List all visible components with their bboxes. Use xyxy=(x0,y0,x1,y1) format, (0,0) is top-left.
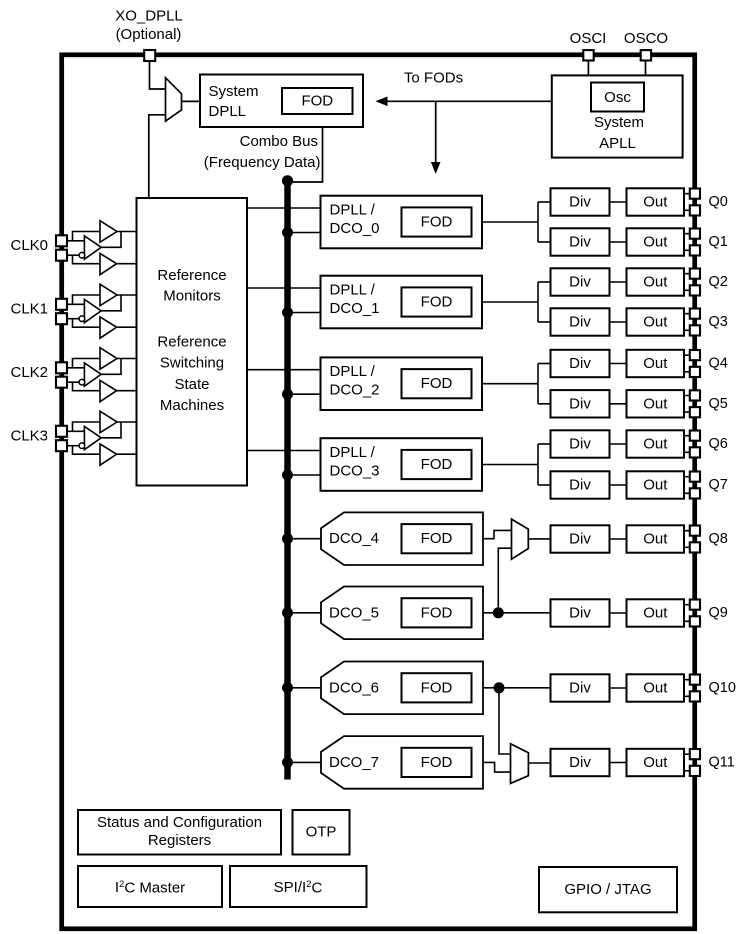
svg-text:Div: Div xyxy=(569,680,591,697)
wire CLK0 to bottom buffer xyxy=(73,255,101,264)
arrowhead To FODs down xyxy=(431,162,441,174)
svg-text:Q6: Q6 xyxy=(709,436,728,452)
block Out Q0 xyxy=(627,188,685,215)
svg-text:DPLL /: DPLL / xyxy=(330,202,376,219)
block OTP xyxy=(293,810,350,855)
pin CLK0 positive xyxy=(56,235,67,246)
svg-text:Out: Out xyxy=(643,314,668,331)
bubble CLK3 inverting input xyxy=(79,443,85,449)
bubble CLK0 inverting input xyxy=(79,252,85,258)
svg-text:DCO_6: DCO_6 xyxy=(329,679,379,696)
block Div Q9 xyxy=(551,599,610,626)
block FOD (DPLL/DCO_1) xyxy=(402,287,472,316)
block DPLL/DCO_3 xyxy=(321,438,483,491)
junction combo bus at DCO_7 xyxy=(282,757,293,768)
pin CLK2 positive xyxy=(56,362,67,373)
wire DPLL/DCO_0 output xyxy=(482,221,538,223)
wire combo bus to DPLL/DCO_2 xyxy=(289,393,321,395)
svg-text:DCO_5: DCO_5 xyxy=(329,604,379,621)
wire combo bus to DCO_5 xyxy=(290,612,321,614)
block Div Q0 xyxy=(551,188,610,215)
svg-text:FOD: FOD xyxy=(301,93,333,110)
wire To FODs branch down xyxy=(435,101,437,163)
wire DCO_4 to mux Q8 xyxy=(483,530,512,538)
svg-text:FOD: FOD xyxy=(421,456,453,473)
wire to Div Q6 xyxy=(538,443,551,445)
block Div Q5 xyxy=(551,390,610,417)
pin Q1 negative xyxy=(690,245,700,255)
block Out Q3 xyxy=(627,308,685,335)
pin CLK1 negative xyxy=(56,313,67,324)
svg-text:OSCI: OSCI xyxy=(570,30,607,47)
svg-text:Div: Div xyxy=(569,531,591,548)
wire reference to DPLL/DCO_1 xyxy=(247,287,321,289)
pin Q6 positive xyxy=(690,431,700,441)
svg-text:Machines: Machines xyxy=(160,397,224,414)
junction combo bus at DPLL/DCO_3 xyxy=(282,470,293,481)
wire DPLL/DCO_1 output split xyxy=(537,282,539,322)
pin Q5 negative xyxy=(690,407,700,417)
wire Div to Out Q11 xyxy=(610,762,627,764)
junction combo bus at DCO_4 xyxy=(282,533,293,544)
wire CLK3 to bottom buffer xyxy=(73,446,101,455)
buffer CLK2 bottom xyxy=(100,380,117,401)
wire Out Q8 to pins xyxy=(684,531,690,548)
pin CLK3 negative xyxy=(56,440,67,451)
wire Div to Out Q6 xyxy=(610,443,627,445)
wire Out Q4 to pins xyxy=(684,355,690,372)
svg-text:SPI/I2C: SPI/I2C xyxy=(274,879,323,897)
block Out Q4 xyxy=(627,350,685,377)
wire CLK0 negative input xyxy=(67,254,79,256)
buffer CLK0 bottom xyxy=(100,253,117,274)
pin Q11 negative xyxy=(690,766,700,776)
block FOD (DCO_7) xyxy=(402,748,472,777)
mux Q8 select xyxy=(512,519,529,559)
block System DPLL xyxy=(200,75,363,128)
svg-text:OSCO: OSCO xyxy=(624,30,668,47)
wire CLK1 bottom buffer output xyxy=(117,326,137,328)
svg-text:Switching: Switching xyxy=(160,355,224,372)
svg-text:Q4: Q4 xyxy=(709,356,728,372)
wire CLK0 top buffer output xyxy=(117,231,137,233)
wire Out Q7 to pins xyxy=(684,477,690,494)
wire CLK1 to top buffer xyxy=(73,295,101,304)
svg-text:Div: Div xyxy=(569,436,591,453)
svg-text:Out: Out xyxy=(643,355,668,372)
block DCO_4 xyxy=(321,512,483,565)
pin Q2 negative xyxy=(690,285,700,295)
wire Out Q6 to pins xyxy=(684,436,690,453)
pin XO_DPLL xyxy=(144,50,155,61)
pin Q7 negative xyxy=(690,488,700,498)
svg-text:Out: Out xyxy=(643,605,668,622)
wire CLK0 to top buffer xyxy=(73,232,101,241)
wire to Div Q7 xyxy=(538,484,551,486)
wire Out Q2 to pins xyxy=(684,274,690,291)
pin Q7 positive xyxy=(690,472,700,482)
wire mux Q11 to Div xyxy=(528,762,550,764)
svg-text:GPIO / JTAG: GPIO / JTAG xyxy=(564,881,651,898)
wire DCO_6 output xyxy=(483,687,551,689)
svg-text:(Frequency Data): (Frequency Data) xyxy=(204,154,321,171)
svg-text:Q7: Q7 xyxy=(709,477,728,493)
svg-text:APLL: APLL xyxy=(599,135,636,152)
wire combo bus to DPLL/DCO_3 xyxy=(289,474,321,476)
svg-text:Out: Out xyxy=(643,436,668,453)
svg-text:Div: Div xyxy=(569,754,591,771)
pin Q5 positive xyxy=(690,390,700,400)
pin CLK0 negative xyxy=(56,250,67,261)
wire Out Q3 to pins xyxy=(684,314,690,331)
svg-text:CLK0: CLK0 xyxy=(11,237,49,254)
svg-text:Registers: Registers xyxy=(148,832,211,849)
wire DCO_6 to mux Q11 xyxy=(499,688,511,754)
wire Out Q11 to pins xyxy=(684,754,690,771)
wire combo bus to DPLL/DCO_0 xyxy=(289,232,321,234)
svg-text:Q8: Q8 xyxy=(709,531,728,547)
block System APLL xyxy=(552,75,683,157)
wire CLK2 diff buffer output xyxy=(101,359,121,375)
wire CLK0 positive input xyxy=(67,240,84,242)
svg-text:Out: Out xyxy=(643,754,668,771)
block DCO_7 xyxy=(321,736,483,789)
svg-text:Div: Div xyxy=(569,314,591,331)
svg-text:Q0: Q0 xyxy=(709,194,728,210)
svg-text:Reference: Reference xyxy=(157,334,226,351)
svg-text:CLK2: CLK2 xyxy=(11,364,49,381)
svg-text:Div: Div xyxy=(569,355,591,372)
wire Div to Out Q1 xyxy=(610,241,627,243)
wire CLK2 to bottom buffer xyxy=(73,382,101,391)
svg-text:Out: Out xyxy=(643,680,668,697)
wire CLK1 diff buffer output xyxy=(101,295,121,311)
pin Q10 negative xyxy=(690,691,700,701)
wire mux to System DPLL xyxy=(182,100,201,102)
svg-text:DCO_4: DCO_4 xyxy=(329,530,379,547)
wire Out Q5 to pins xyxy=(684,396,690,413)
wire Div to Out Q5 xyxy=(610,403,627,405)
svg-text:DCO_1: DCO_1 xyxy=(330,300,380,317)
svg-text:Div: Div xyxy=(569,395,591,412)
block Out Q8 xyxy=(627,525,685,552)
wire XO_DPLL to mux xyxy=(150,61,166,89)
junction combo bus top xyxy=(282,175,293,186)
block Out Q5 xyxy=(627,390,685,417)
pin Q2 positive xyxy=(690,269,700,279)
mux system DPLL input select xyxy=(166,78,182,121)
svg-text:Monitors: Monitors xyxy=(163,288,221,305)
wire DPLL/DCO_3 output xyxy=(482,464,538,466)
pin Q6 negative xyxy=(690,447,700,457)
wire to Div Q2 xyxy=(538,281,551,283)
svg-text:FOD: FOD xyxy=(421,214,453,231)
svg-text:Div: Div xyxy=(569,234,591,251)
block Div Q1 xyxy=(551,228,610,255)
buffer CLK3 bottom xyxy=(100,444,117,465)
svg-text:System: System xyxy=(594,114,644,131)
pin OSCO xyxy=(641,50,651,60)
wire Out Q10 to pins xyxy=(684,680,690,697)
block Out Q2 xyxy=(627,268,685,295)
block Status and Configuration Registers xyxy=(78,810,281,855)
wire Div to Out Q2 xyxy=(610,281,627,283)
pin Q3 positive xyxy=(690,309,700,319)
svg-text:DPLL: DPLL xyxy=(209,103,247,120)
wire CLK3 bottom buffer output xyxy=(117,453,137,455)
wire System DPLL to combo bus xyxy=(289,127,323,182)
wire Div to Out Q3 xyxy=(610,321,627,323)
wire mux Q8 to Div xyxy=(528,538,550,540)
buffer CLK2 differential xyxy=(84,363,101,386)
arrowhead To FODs left xyxy=(375,97,387,107)
block DPLL/DCO_1 xyxy=(321,276,483,329)
svg-text:Out: Out xyxy=(643,477,668,494)
wire To FODs horizontal xyxy=(387,100,552,102)
svg-text:DPLL /: DPLL / xyxy=(330,282,376,299)
wire combo bus to DCO_7 xyxy=(290,761,321,763)
buffer CLK1 differential xyxy=(84,299,101,322)
wire DCO_5 output xyxy=(483,612,551,614)
wire CLK0 diff buffer output xyxy=(101,232,121,248)
buffer CLK3 top xyxy=(100,411,117,433)
wire to Div Q5 xyxy=(538,403,551,405)
wire CLK1 to bottom buffer xyxy=(73,319,101,328)
junction combo bus at DPLL/DCO_1 xyxy=(282,307,293,318)
svg-text:(Optional): (Optional) xyxy=(116,26,182,43)
svg-text:DPLL /: DPLL / xyxy=(330,444,376,461)
block Div Q6 xyxy=(551,430,610,457)
wire Div to Out Q0 xyxy=(610,201,627,203)
wire CLK2 negative input xyxy=(67,381,79,383)
pin Q4 negative xyxy=(690,367,700,377)
buffer CLK2 top xyxy=(100,348,117,370)
combo bus (thick vertical) xyxy=(284,179,291,780)
pin Q8 positive xyxy=(690,526,700,536)
svg-text:XO_DPLL: XO_DPLL xyxy=(115,8,183,25)
block DCO_5 xyxy=(321,587,483,640)
pin Q9 negative xyxy=(690,616,700,626)
block Div Q10 xyxy=(551,674,610,701)
wire to Div Q4 xyxy=(538,363,551,365)
block Reference Monitors / Switching xyxy=(137,198,248,486)
pin Q10 positive xyxy=(690,675,700,685)
wire reference to DPLL/DCO_3 xyxy=(247,450,321,452)
svg-text:Div: Div xyxy=(569,605,591,622)
wire reference to DPLL/DCO_0 xyxy=(247,207,321,209)
svg-text:Status and Configuration: Status and Configuration xyxy=(97,814,262,831)
svg-text:FOD: FOD xyxy=(421,375,453,392)
buffer CLK0 differential xyxy=(84,236,101,259)
wire CLK3 negative input xyxy=(67,445,79,447)
block Out Q6 xyxy=(627,430,685,457)
pin CLK3 positive xyxy=(56,426,67,437)
wire Div to Out Q10 xyxy=(610,687,627,689)
svg-text:Out: Out xyxy=(643,274,668,291)
svg-text:DCO_2: DCO_2 xyxy=(330,382,380,399)
buffer CLK0 top xyxy=(100,221,117,243)
block FOD (System DPLL) xyxy=(282,88,353,114)
wire combo bus to DCO_4 xyxy=(290,538,321,540)
block I2C Master xyxy=(78,866,222,907)
svg-text:DCO_7: DCO_7 xyxy=(329,754,379,771)
junction combo bus at DCO_5 xyxy=(282,607,293,618)
svg-text:FOD: FOD xyxy=(421,604,453,621)
wire DCO_7 to mux Q11 xyxy=(483,762,511,772)
wire CLK1 positive input xyxy=(67,303,84,305)
buffer CLK1 bottom xyxy=(100,317,117,338)
svg-text:FOD: FOD xyxy=(421,754,453,771)
junction combo bus at DPLL/DCO_0 xyxy=(282,227,293,238)
block Out Q10 xyxy=(627,674,685,701)
svg-text:CLK3: CLK3 xyxy=(11,428,49,445)
wire CLK0 bottom buffer output xyxy=(117,263,137,265)
block Div Q8 xyxy=(551,525,610,552)
wire CLK3 positive input xyxy=(67,430,84,432)
block FOD (DPLL/DCO_2) xyxy=(402,369,472,398)
block Div Q4 xyxy=(551,350,610,377)
svg-text:System: System xyxy=(209,83,259,100)
block FOD (DPLL/DCO_0) xyxy=(402,207,472,236)
svg-text:Out: Out xyxy=(643,234,668,251)
pin Q0 positive xyxy=(690,189,700,199)
block DPLL/DCO_2 xyxy=(321,357,483,410)
wire DPLL/DCO_2 output xyxy=(482,383,538,385)
pin Q9 positive xyxy=(690,600,700,610)
wire CLK2 bottom buffer output xyxy=(117,390,137,392)
wire OSCI to System APLL xyxy=(587,61,589,76)
block Div Q7 xyxy=(551,471,610,498)
junction DCO_5 output xyxy=(493,607,504,618)
wire to Div Q0 xyxy=(538,201,551,203)
svg-text:Q9: Q9 xyxy=(709,605,728,621)
wire CLK2 to top buffer xyxy=(73,359,101,368)
wire CLK1 negative input xyxy=(67,318,79,320)
block FOD (DPLL/DCO_3) xyxy=(402,450,472,479)
pin CLK1 positive xyxy=(56,299,67,310)
svg-text:Out: Out xyxy=(643,395,668,412)
svg-text:Reference: Reference xyxy=(157,267,226,284)
block Div Q3 xyxy=(551,308,610,335)
svg-text:Div: Div xyxy=(569,274,591,291)
svg-text:State: State xyxy=(174,376,209,393)
wire CLK3 diff buffer output xyxy=(101,422,121,438)
svg-text:Div: Div xyxy=(569,194,591,211)
wire CLK3 top buffer output xyxy=(117,421,137,423)
svg-text:CLK1: CLK1 xyxy=(11,301,49,318)
pin Q1 positive xyxy=(690,229,700,239)
block FOD (DCO_5) xyxy=(402,598,472,627)
block FOD (DCO_6) xyxy=(402,673,472,702)
block Out Q1 xyxy=(627,228,685,255)
junction combo bus at DCO_6 xyxy=(282,682,293,693)
wire Div to Out Q8 xyxy=(610,538,627,540)
wire DPLL/DCO_3 output split xyxy=(537,444,539,485)
svg-text:Combo Bus: Combo Bus xyxy=(240,133,318,150)
svg-text:OTP: OTP xyxy=(306,824,337,841)
svg-text:Out: Out xyxy=(643,194,668,211)
wire DPLL/DCO_0 output split xyxy=(537,202,539,242)
pin Q0 negative xyxy=(690,205,700,215)
svg-text:Div: Div xyxy=(569,477,591,494)
wire Out Q9 to pins xyxy=(684,605,690,622)
svg-text:DCO_3: DCO_3 xyxy=(330,463,380,480)
chip boundary box xyxy=(62,55,695,929)
block Out Q7 xyxy=(627,471,685,498)
wire Out Q1 to pins xyxy=(684,234,690,251)
wire DPLL/DCO_1 output xyxy=(482,301,538,303)
wire to Div Q1 xyxy=(538,241,551,243)
pin Q11 positive xyxy=(690,749,700,759)
block SPI/I2C xyxy=(230,866,367,907)
svg-text:Out: Out xyxy=(643,531,668,548)
pin Q4 positive xyxy=(690,350,700,360)
pin CLK2 negative xyxy=(56,377,67,388)
svg-text:DPLL /: DPLL / xyxy=(330,363,376,380)
wire reference to DPLL/DCO_2 xyxy=(247,369,321,371)
block Out Q11 xyxy=(627,749,685,776)
svg-text:Q10: Q10 xyxy=(709,680,736,696)
block Div Q2 xyxy=(551,268,610,295)
svg-text:Q5: Q5 xyxy=(709,396,728,412)
svg-text:To FODs: To FODs xyxy=(404,70,463,87)
pin Q8 negative xyxy=(690,542,700,552)
block FOD (DCO_4) xyxy=(402,524,472,553)
svg-text:Q3: Q3 xyxy=(709,314,728,330)
block Out Q9 xyxy=(627,599,685,626)
junction combo bus at DPLL/DCO_2 xyxy=(282,389,293,400)
bubble CLK1 inverting input xyxy=(79,316,85,322)
wire DCO_5 to mux Q8 xyxy=(498,548,511,613)
svg-text:Q2: Q2 xyxy=(709,274,728,290)
svg-text:DCO_0: DCO_0 xyxy=(330,220,380,237)
block DPLL/DCO_0 xyxy=(321,196,483,249)
block GPIO / JTAG xyxy=(539,867,677,912)
wire combo bus to DCO_6 xyxy=(290,687,321,689)
wire CLK2 positive input xyxy=(67,367,84,369)
pin Q3 negative xyxy=(690,325,700,335)
wire combo bus to DPLL/DCO_1 xyxy=(289,312,321,314)
wire Div to Out Q7 xyxy=(610,484,627,486)
wire Div to Out Q9 xyxy=(610,612,627,614)
svg-text:FOD: FOD xyxy=(421,294,453,311)
wire reference monitors to mux xyxy=(149,115,166,198)
buffer CLK3 differential xyxy=(84,426,101,449)
wire OSCO to System APLL xyxy=(645,61,647,76)
wire CLK3 to top buffer xyxy=(73,422,101,431)
buffer CLK1 top xyxy=(100,284,117,306)
svg-text:Q1: Q1 xyxy=(709,234,728,250)
wire CLK2 top buffer output xyxy=(117,358,137,360)
svg-text:FOD: FOD xyxy=(421,679,453,696)
block Div Q11 xyxy=(551,749,610,776)
wire to Div Q3 xyxy=(538,321,551,323)
block DCO_6 xyxy=(321,662,483,715)
pin OSCI xyxy=(583,50,593,60)
bubble CLK2 inverting input xyxy=(79,379,85,385)
svg-text:I2C Master: I2C Master xyxy=(115,879,185,897)
mux Q11 select xyxy=(511,744,529,784)
block Osc xyxy=(591,83,644,112)
wire Out Q0 to pins xyxy=(684,194,690,211)
svg-text:Q11: Q11 xyxy=(709,755,735,771)
svg-text:FOD: FOD xyxy=(421,530,453,547)
junction DCO_6 output xyxy=(494,682,505,693)
wire CLK1 top buffer output xyxy=(117,294,137,296)
svg-text:Osc: Osc xyxy=(604,89,631,106)
wire DPLL/DCO_2 output split xyxy=(537,364,539,404)
wire Div to Out Q4 xyxy=(610,363,627,365)
